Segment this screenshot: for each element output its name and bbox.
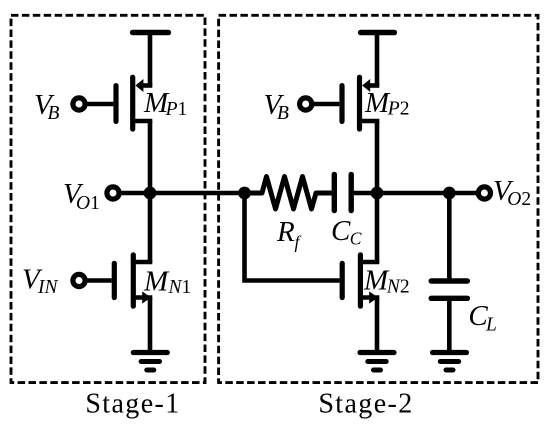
junction node C_L tap bbox=[443, 187, 456, 200]
svg-text:N1: N1 bbox=[168, 277, 192, 298]
transistor M_N1 bbox=[114, 255, 152, 306]
svg-text:M: M bbox=[143, 266, 170, 298]
ground stage 2 bbox=[360, 353, 394, 371]
svg-text:N2: N2 bbox=[386, 277, 410, 298]
junction node V_O1 bbox=[144, 187, 157, 200]
svg-text:P2: P2 bbox=[387, 99, 410, 120]
wire output node to V_O2 bbox=[377, 191, 478, 196]
wire VDD to M_P2 source bbox=[375, 33, 380, 86]
junction node stage-2 output bbox=[371, 187, 384, 200]
capacitor C_C bbox=[334, 174, 377, 210]
wire C_L to ground bbox=[447, 298, 452, 352]
transistor M_P2 bbox=[342, 77, 379, 129]
svg-text:O1: O1 bbox=[76, 193, 100, 214]
svg-text:L: L bbox=[485, 315, 497, 336]
transistor M_P1 bbox=[116, 77, 152, 129]
wire V_B to M_P2 gate bbox=[312, 102, 339, 107]
svg-text:C: C bbox=[350, 229, 362, 249]
wire down to C_L bbox=[447, 193, 452, 281]
svg-text:Stage-1: Stage-1 bbox=[85, 389, 180, 420]
svg-text:P1: P1 bbox=[165, 99, 188, 120]
stage-2 dashed box bbox=[219, 15, 538, 382]
terminal V_O2 bbox=[478, 187, 490, 199]
terminal V_O1 bbox=[107, 187, 119, 199]
wire VDD to M_P1 source bbox=[148, 33, 153, 86]
resistor R_f bbox=[245, 177, 332, 210]
stage-1 dashed box bbox=[11, 15, 205, 382]
terminal V_B stage 1 bbox=[73, 98, 85, 110]
wire V_B to M_P1 gate bbox=[85, 102, 113, 107]
svg-text:C: C bbox=[331, 215, 351, 247]
junction node A (R_f C_C input) bbox=[238, 187, 251, 200]
capacitor C_L bbox=[431, 281, 467, 298]
svg-text:B: B bbox=[48, 103, 60, 124]
svg-text:O2: O2 bbox=[507, 189, 531, 210]
power rail VDD stage 2 bbox=[361, 30, 395, 36]
wire M_P2 drain to output node bbox=[375, 121, 380, 262]
wire M_N2 source to ground bbox=[375, 298, 380, 353]
wire node A down to M_N2 gate bbox=[245, 193, 340, 281]
svg-text:Stage-2: Stage-2 bbox=[318, 389, 413, 420]
ground C_L bbox=[433, 353, 467, 371]
terminal V_B stage 2 bbox=[300, 98, 312, 110]
power rail VDD stage 1 bbox=[133, 30, 169, 36]
svg-text:B: B bbox=[277, 103, 289, 124]
transistor M_N2 bbox=[342, 255, 379, 306]
wire V_IN to M_N1 gate bbox=[85, 278, 112, 283]
svg-text:R: R bbox=[276, 216, 295, 248]
terminal V_IN bbox=[73, 274, 85, 286]
wire M_P1 drain to node V_O1 bbox=[148, 121, 153, 262]
wire M_N1 source to ground bbox=[148, 298, 153, 353]
svg-text:IN: IN bbox=[37, 277, 58, 298]
wire V_O1 node horizontal bbox=[120, 191, 245, 196]
ground stage 1 bbox=[133, 353, 167, 371]
